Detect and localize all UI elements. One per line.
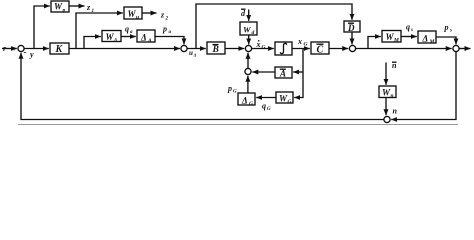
svg-text:x: x	[256, 40, 261, 49]
svg-text:K: K	[55, 44, 64, 55]
svg-text:-: -	[24, 47, 27, 57]
svg-text:n: n	[392, 61, 397, 70]
svg-text:Δ: Δ	[113, 39, 117, 44]
svg-text:p: p	[444, 23, 449, 32]
svg-text:s: s	[410, 28, 413, 33]
svg-text:q: q	[125, 25, 129, 34]
svg-text:+: +	[12, 44, 16, 53]
svg-text:n: n	[391, 93, 394, 99]
svg-text:d: d	[252, 30, 255, 36]
svg-text:Δ: Δ	[193, 53, 197, 58]
svg-text:B: B	[212, 45, 219, 55]
svg-text:Δ: Δ	[241, 96, 248, 106]
svg-text:n: n	[393, 107, 398, 116]
svg-text:G: G	[262, 45, 266, 51]
svg-text:M: M	[429, 39, 436, 45]
svg-text:Δ: Δ	[140, 33, 147, 43]
svg-text:q: q	[262, 102, 266, 111]
svg-text:u: u	[136, 15, 139, 21]
svg-text:a: a	[169, 30, 172, 35]
svg-text:y: y	[29, 50, 34, 59]
svg-text:q: q	[406, 23, 410, 32]
svg-text:G: G	[288, 99, 292, 105]
svg-text:x: x	[297, 37, 302, 46]
svg-text:D: D	[347, 23, 355, 33]
svg-text:a: a	[130, 30, 133, 35]
svg-text:s: s	[449, 29, 452, 34]
svg-text:z: z	[160, 11, 165, 20]
svg-text:A: A	[279, 69, 286, 79]
svg-text:A: A	[147, 38, 152, 44]
svg-text:G: G	[249, 101, 253, 107]
svg-text:C: C	[317, 45, 324, 56]
svg-text:d: d	[241, 9, 246, 18]
svg-text:G: G	[267, 107, 271, 112]
svg-text:G: G	[304, 42, 308, 48]
svg-text:u: u	[189, 49, 193, 57]
svg-text:p: p	[162, 25, 167, 34]
svg-text:1: 1	[92, 9, 95, 14]
svg-text:G: G	[233, 90, 237, 95]
svg-text:2: 2	[165, 17, 169, 22]
svg-text:p: p	[62, 8, 66, 14]
svg-text:Δ: Δ	[422, 34, 429, 44]
svg-text:p: p	[227, 84, 232, 93]
svg-text:z: z	[86, 3, 91, 12]
